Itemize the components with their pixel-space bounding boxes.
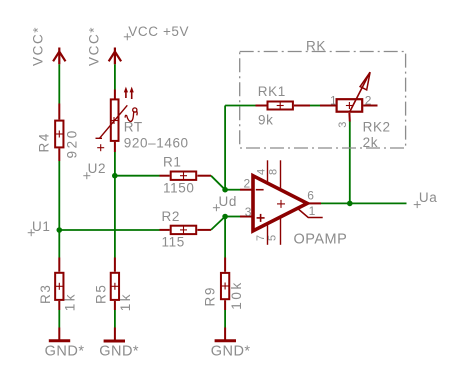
power VCC arrow 1: [53, 48, 65, 65]
svg-text:1k: 1k: [62, 292, 77, 311]
node U2: [112, 173, 118, 179]
ground GND1: [45, 328, 85, 360]
svg-text:R5: R5: [94, 284, 109, 304]
svg-text:Ua: Ua: [419, 190, 437, 205]
op-amp OPAMP: [240, 160, 323, 245]
wire VCC2 down: [114, 64, 116, 89]
wire U1 row: [59, 229, 159, 231]
wire RK1 to RK2: [310, 105, 320, 107]
resistor R2: [160, 226, 212, 234]
svg-text:2k: 2k: [363, 135, 378, 150]
svg-text:U2: U2: [88, 161, 106, 176]
wire output up to RK2 pin3: [349, 122, 351, 204]
label VCC +5V: [124, 24, 189, 40]
svg-text:4: 4: [256, 169, 268, 175]
resistor RK1: [256, 102, 311, 110]
svg-text:8: 8: [267, 169, 279, 175]
svg-text:115: 115: [162, 235, 185, 250]
node pin2 junction: [222, 187, 228, 193]
resistor R3: [55, 258, 63, 311]
wire output row: [321, 202, 407, 204]
svg-text:RK1: RK1: [258, 84, 286, 99]
svg-text:1k: 1k: [118, 292, 133, 311]
svg-text:1: 1: [309, 204, 316, 218]
ground GND3: [211, 328, 251, 360]
node U1: [57, 227, 63, 233]
wire U1 down: [58, 230, 60, 258]
svg-text:OPAMP: OPAMP: [294, 231, 348, 247]
node pin3 junction: [222, 214, 228, 220]
svg-text:RT: RT: [124, 120, 143, 135]
svg-text:R1: R1: [163, 155, 181, 170]
svg-text:R3: R3: [38, 284, 53, 304]
wire pin3 node down to R9: [224, 217, 226, 258]
ground GND2: [99, 328, 139, 360]
svg-text:3: 3: [337, 122, 349, 128]
wire U2 row: [115, 175, 160, 177]
svg-text:7: 7: [255, 235, 267, 241]
resistor R9: [221, 258, 229, 311]
svg-text:VCC +5V: VCC +5V: [128, 24, 189, 39]
label U1: [28, 219, 51, 236]
wire R9 to GND3: [224, 310, 226, 328]
svg-text:920–1460: 920–1460: [124, 135, 189, 150]
svg-text:1150: 1150: [163, 180, 194, 195]
svg-text:VCC*: VCC*: [87, 26, 102, 66]
svg-text:VCC*: VCC*: [31, 26, 46, 66]
thermistor RT: [96, 87, 138, 152]
power VCC arrow 2: [109, 48, 121, 65]
svg-text:2: 2: [365, 93, 372, 107]
wire R4 to U1: [58, 161, 60, 230]
wire vertical to RK1: [224, 106, 226, 190]
svg-text:Ud: Ud: [219, 194, 237, 209]
wire VCC1 down: [58, 64, 60, 103]
svg-text:RK2: RK2: [363, 120, 391, 135]
wire to opamp pin3: [225, 216, 240, 218]
label Ud: [213, 194, 237, 211]
resistor R1: [160, 172, 212, 180]
wire R3 to GND1: [58, 310, 60, 328]
resistor R4: [55, 104, 63, 162]
label U2: [83, 161, 106, 179]
svg-text:1: 1: [330, 93, 337, 107]
svg-text:GND*: GND*: [211, 343, 251, 359]
svg-text:920: 920: [65, 128, 80, 158]
svg-text:R9: R9: [203, 286, 218, 306]
wire U2 down to R5: [114, 176, 116, 258]
label Ua: [414, 190, 438, 208]
svg-text:R4: R4: [37, 132, 52, 152]
wire RT to U2: [114, 152, 116, 176]
resistor R5: [111, 258, 119, 311]
svg-text:5: 5: [267, 235, 279, 241]
svg-text:2: 2: [244, 177, 251, 191]
svg-text:GND*: GND*: [99, 343, 139, 359]
svg-text:3: 3: [245, 205, 252, 219]
wire to RK1: [225, 105, 255, 107]
svg-text:9k: 9k: [258, 113, 273, 128]
wire to opamp pin2: [225, 189, 240, 191]
wire R1 diagonal: [211, 176, 225, 190]
svg-text:GND*: GND*: [45, 343, 85, 359]
wire R5 to GND2: [114, 310, 116, 328]
svg-text:10k: 10k: [229, 280, 244, 310]
node output junction: [347, 201, 353, 207]
svg-text:U1: U1: [32, 219, 50, 234]
module box RK: [240, 52, 406, 149]
wire R2 diagonal: [211, 217, 225, 230]
svg-text:RK: RK: [306, 39, 326, 54]
svg-text:6: 6: [307, 188, 314, 202]
potentiometer RK2: [320, 72, 378, 121]
svg-text:R2: R2: [162, 209, 180, 224]
